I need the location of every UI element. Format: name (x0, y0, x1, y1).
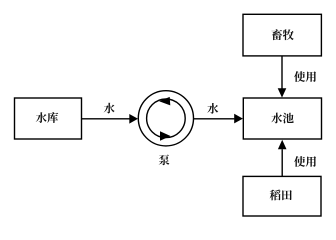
label 泵 (159, 154, 170, 165)
label 使用 (top) (294, 71, 305, 82)
box 水库 (reservoir) (15, 98, 82, 139)
wire 稻田→水池 (281, 149, 283, 176)
pump rotation arrow bottom (points right) (160, 131, 171, 140)
pump outer circle (138, 91, 193, 146)
label 畜牧 (271, 29, 282, 40)
box 稻田 (paddy field) (243, 176, 321, 216)
label 水池 (271, 113, 282, 124)
label 水 (right) (207, 103, 218, 114)
label 水库 (36, 112, 47, 123)
label 稻田 (270, 189, 281, 200)
box 水池 (pool) (243, 98, 321, 139)
label 水 (left) (104, 103, 115, 114)
label 使用 (bottom) (294, 156, 305, 167)
wire 畜牧→水池 (281, 56, 283, 89)
box 畜牧 (livestock) (243, 14, 321, 56)
pump inner circle (147, 99, 186, 138)
arrowhead into 水池 top (278, 88, 287, 97)
wire pump→水池 (194, 118, 235, 120)
arrowhead into 水池 bottom (278, 140, 287, 149)
pump rotation arrow top (points left) (159, 97, 170, 106)
arrowhead into pump (129, 114, 138, 124)
wire 水库→pump (82, 118, 130, 120)
arrowhead into 水池 left (234, 114, 243, 124)
